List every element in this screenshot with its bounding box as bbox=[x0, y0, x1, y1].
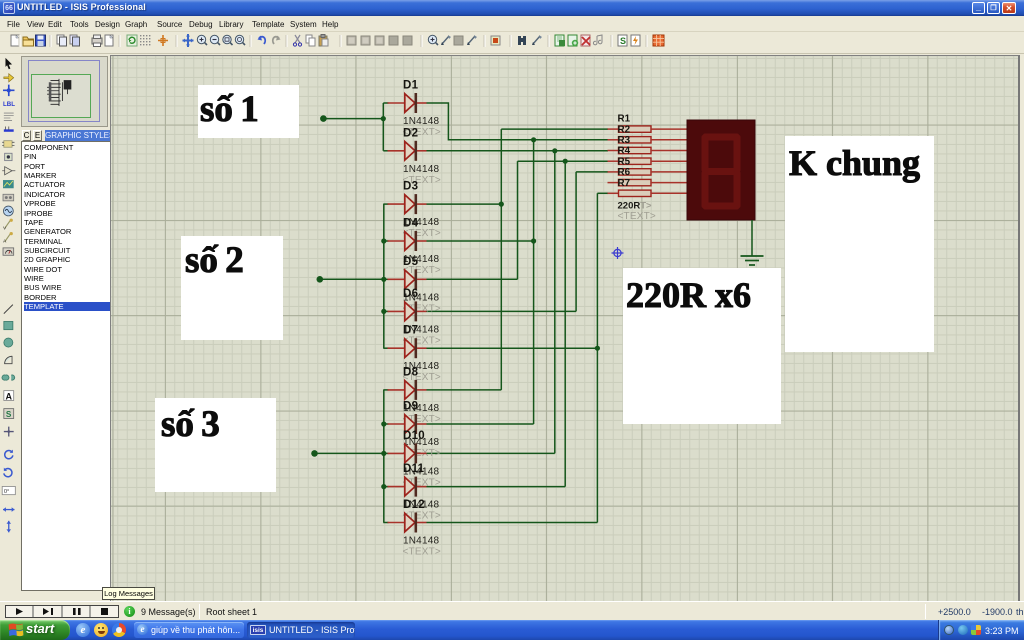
svg-text:R6: R6 bbox=[618, 167, 631, 178]
node marker crosshair bbox=[612, 247, 624, 259]
diode D11 1N4148 bbox=[388, 463, 441, 521]
wire bbox=[383, 102, 388, 104]
wire bbox=[383, 240, 388, 242]
label box so 3 bbox=[155, 398, 276, 492]
wire D5 output bbox=[427, 278, 518, 280]
junction vbus533/D4 bbox=[531, 238, 536, 243]
wire D3 output bbox=[427, 203, 502, 205]
wire D1 output to R2 row bbox=[427, 103, 609, 140]
svg-text:<TEXT>: <TEXT> bbox=[618, 211, 656, 222]
svg-text:R1: R1 bbox=[618, 114, 631, 125]
diode D7 1N4148 bbox=[388, 325, 441, 384]
svg-text:R2: R2 bbox=[618, 124, 631, 135]
wire group2 vertical bbox=[383, 204, 385, 348]
svg-text:1N4148: 1N4148 bbox=[403, 116, 439, 127]
junction vbus501/D3 bbox=[499, 202, 504, 207]
label box so 2 bbox=[181, 236, 283, 340]
diode D4 1N4148 bbox=[388, 218, 441, 277]
label box K chung bbox=[785, 136, 934, 352]
wire bbox=[383, 278, 388, 280]
wire bbox=[383, 423, 388, 425]
wire input so 3 bbox=[315, 452, 384, 454]
wire bbox=[383, 347, 388, 349]
diode D12 1N4148 bbox=[388, 499, 441, 558]
wire D11 output bbox=[427, 486, 566, 488]
wire D7 output bbox=[427, 347, 598, 349]
diode D1 1N4148 bbox=[388, 80, 441, 139]
wire bbox=[383, 389, 388, 391]
svg-text:1N4148: 1N4148 bbox=[403, 536, 439, 547]
diode D9 1N4148 bbox=[388, 401, 441, 460]
wire D2 output to R3 row bbox=[427, 150, 609, 152]
diode D3 1N4148 bbox=[388, 181, 441, 240]
resistor R4 220R bbox=[608, 146, 688, 165]
junction D1-row/vbus533 bbox=[531, 137, 536, 142]
diode D5 1N4148 bbox=[388, 256, 441, 315]
junction D11 anode bbox=[381, 484, 386, 489]
wire D9 output bbox=[427, 423, 534, 425]
diode D2 1N4148 bbox=[388, 127, 441, 186]
svg-text:R4: R4 bbox=[618, 146, 631, 157]
junction D6 anode bbox=[381, 309, 386, 314]
junction D2-row/vbus554 bbox=[552, 148, 557, 153]
svg-text:D2: D2 bbox=[403, 127, 418, 139]
7-segment display (K chung) bbox=[687, 120, 755, 220]
svg-text:A: A bbox=[5, 391, 12, 401]
wire input so 2 bbox=[320, 278, 384, 280]
svg-text:D3: D3 bbox=[403, 181, 418, 193]
wire bbox=[383, 452, 388, 454]
wire D4 output bbox=[427, 240, 534, 242]
label box so 1 bbox=[198, 85, 299, 138]
resistor R5 220R bbox=[608, 156, 688, 175]
svg-text:220RT>: 220RT> bbox=[618, 200, 653, 211]
svg-text:R7: R7 bbox=[618, 178, 631, 189]
wire vbus576 R5-D6 bbox=[575, 172, 577, 312]
wire display common cathode to ground bbox=[751, 220, 753, 256]
resistor R3 220R bbox=[608, 135, 688, 154]
wire group3 vertical bbox=[383, 390, 385, 523]
wire R7 row bbox=[597, 192, 608, 194]
wire vbus565 R4-D11 bbox=[564, 161, 566, 486]
wire group1 vertical bbox=[382, 103, 384, 151]
svg-text:D10: D10 bbox=[403, 430, 425, 442]
wire vbus597 R7-D7-D12 bbox=[596, 193, 598, 522]
resistor R1 220R bbox=[608, 114, 688, 133]
wire vbus533 R2-D4-D9 bbox=[533, 140, 535, 424]
wire bbox=[383, 486, 388, 488]
wire D8 output bbox=[427, 389, 502, 391]
junction vbus597/D7 bbox=[595, 346, 600, 351]
svg-text:R5: R5 bbox=[618, 156, 631, 167]
node input so 2 endpoint bbox=[317, 276, 324, 283]
svg-text:D1: D1 bbox=[403, 80, 419, 92]
svg-text:S: S bbox=[620, 36, 626, 46]
wire D10 output bbox=[427, 452, 555, 454]
wire bbox=[383, 310, 388, 312]
svg-text:R3: R3 bbox=[618, 135, 631, 146]
svg-text:1N4148: 1N4148 bbox=[403, 164, 439, 175]
junction R4-row/vbus565 bbox=[563, 159, 568, 164]
svg-text:D9: D9 bbox=[403, 401, 418, 413]
wire R5 row bbox=[576, 171, 608, 173]
svg-text:LBL: LBL bbox=[3, 101, 15, 108]
wire bbox=[383, 150, 388, 152]
junction D9 anode bbox=[381, 421, 386, 426]
svg-text:D4: D4 bbox=[403, 218, 419, 230]
node input so 1 endpoint bbox=[320, 115, 327, 122]
junction D5 anode/input2 bbox=[381, 277, 386, 282]
junction D10 anode/input3 bbox=[381, 451, 386, 456]
svg-text:0°: 0° bbox=[4, 489, 9, 495]
wire bbox=[383, 522, 388, 524]
svg-text:D8: D8 bbox=[403, 366, 419, 378]
junction D4 anode bbox=[381, 238, 386, 243]
svg-text:D5: D5 bbox=[403, 256, 419, 268]
wire D6 output bbox=[427, 310, 577, 312]
resistor R2 220R bbox=[608, 124, 688, 143]
node input so 3 endpoint bbox=[311, 450, 318, 457]
svg-text:D11: D11 bbox=[403, 463, 425, 475]
wire D12 output bbox=[427, 522, 598, 524]
wire R4 row bbox=[518, 160, 609, 162]
wire input so 1 bbox=[323, 118, 383, 120]
label box 220R x6 bbox=[623, 268, 781, 424]
svg-text:D7: D7 bbox=[403, 325, 418, 337]
resistor R7 220R bbox=[608, 178, 688, 197]
wire vbus501 R1-D3-D8 bbox=[500, 129, 502, 390]
ground bbox=[741, 256, 764, 265]
diode D10 1N4148 bbox=[388, 430, 441, 489]
svg-text:D6: D6 bbox=[403, 288, 418, 300]
wire R1 row bbox=[501, 128, 608, 130]
wire bbox=[383, 203, 388, 205]
svg-text:<TEXT>: <TEXT> bbox=[403, 547, 441, 558]
wire vbus554 R3-D10 bbox=[554, 151, 556, 454]
resistor R6 220R bbox=[608, 167, 688, 186]
wire vbus517 R4-D5 bbox=[517, 161, 519, 279]
svg-text:D12: D12 bbox=[403, 499, 425, 511]
svg-text:S: S bbox=[6, 410, 12, 419]
diode D6 1N4148 bbox=[388, 288, 441, 347]
junction input1/group1 bbox=[381, 116, 386, 121]
diode D8 1N4148 bbox=[388, 366, 441, 425]
